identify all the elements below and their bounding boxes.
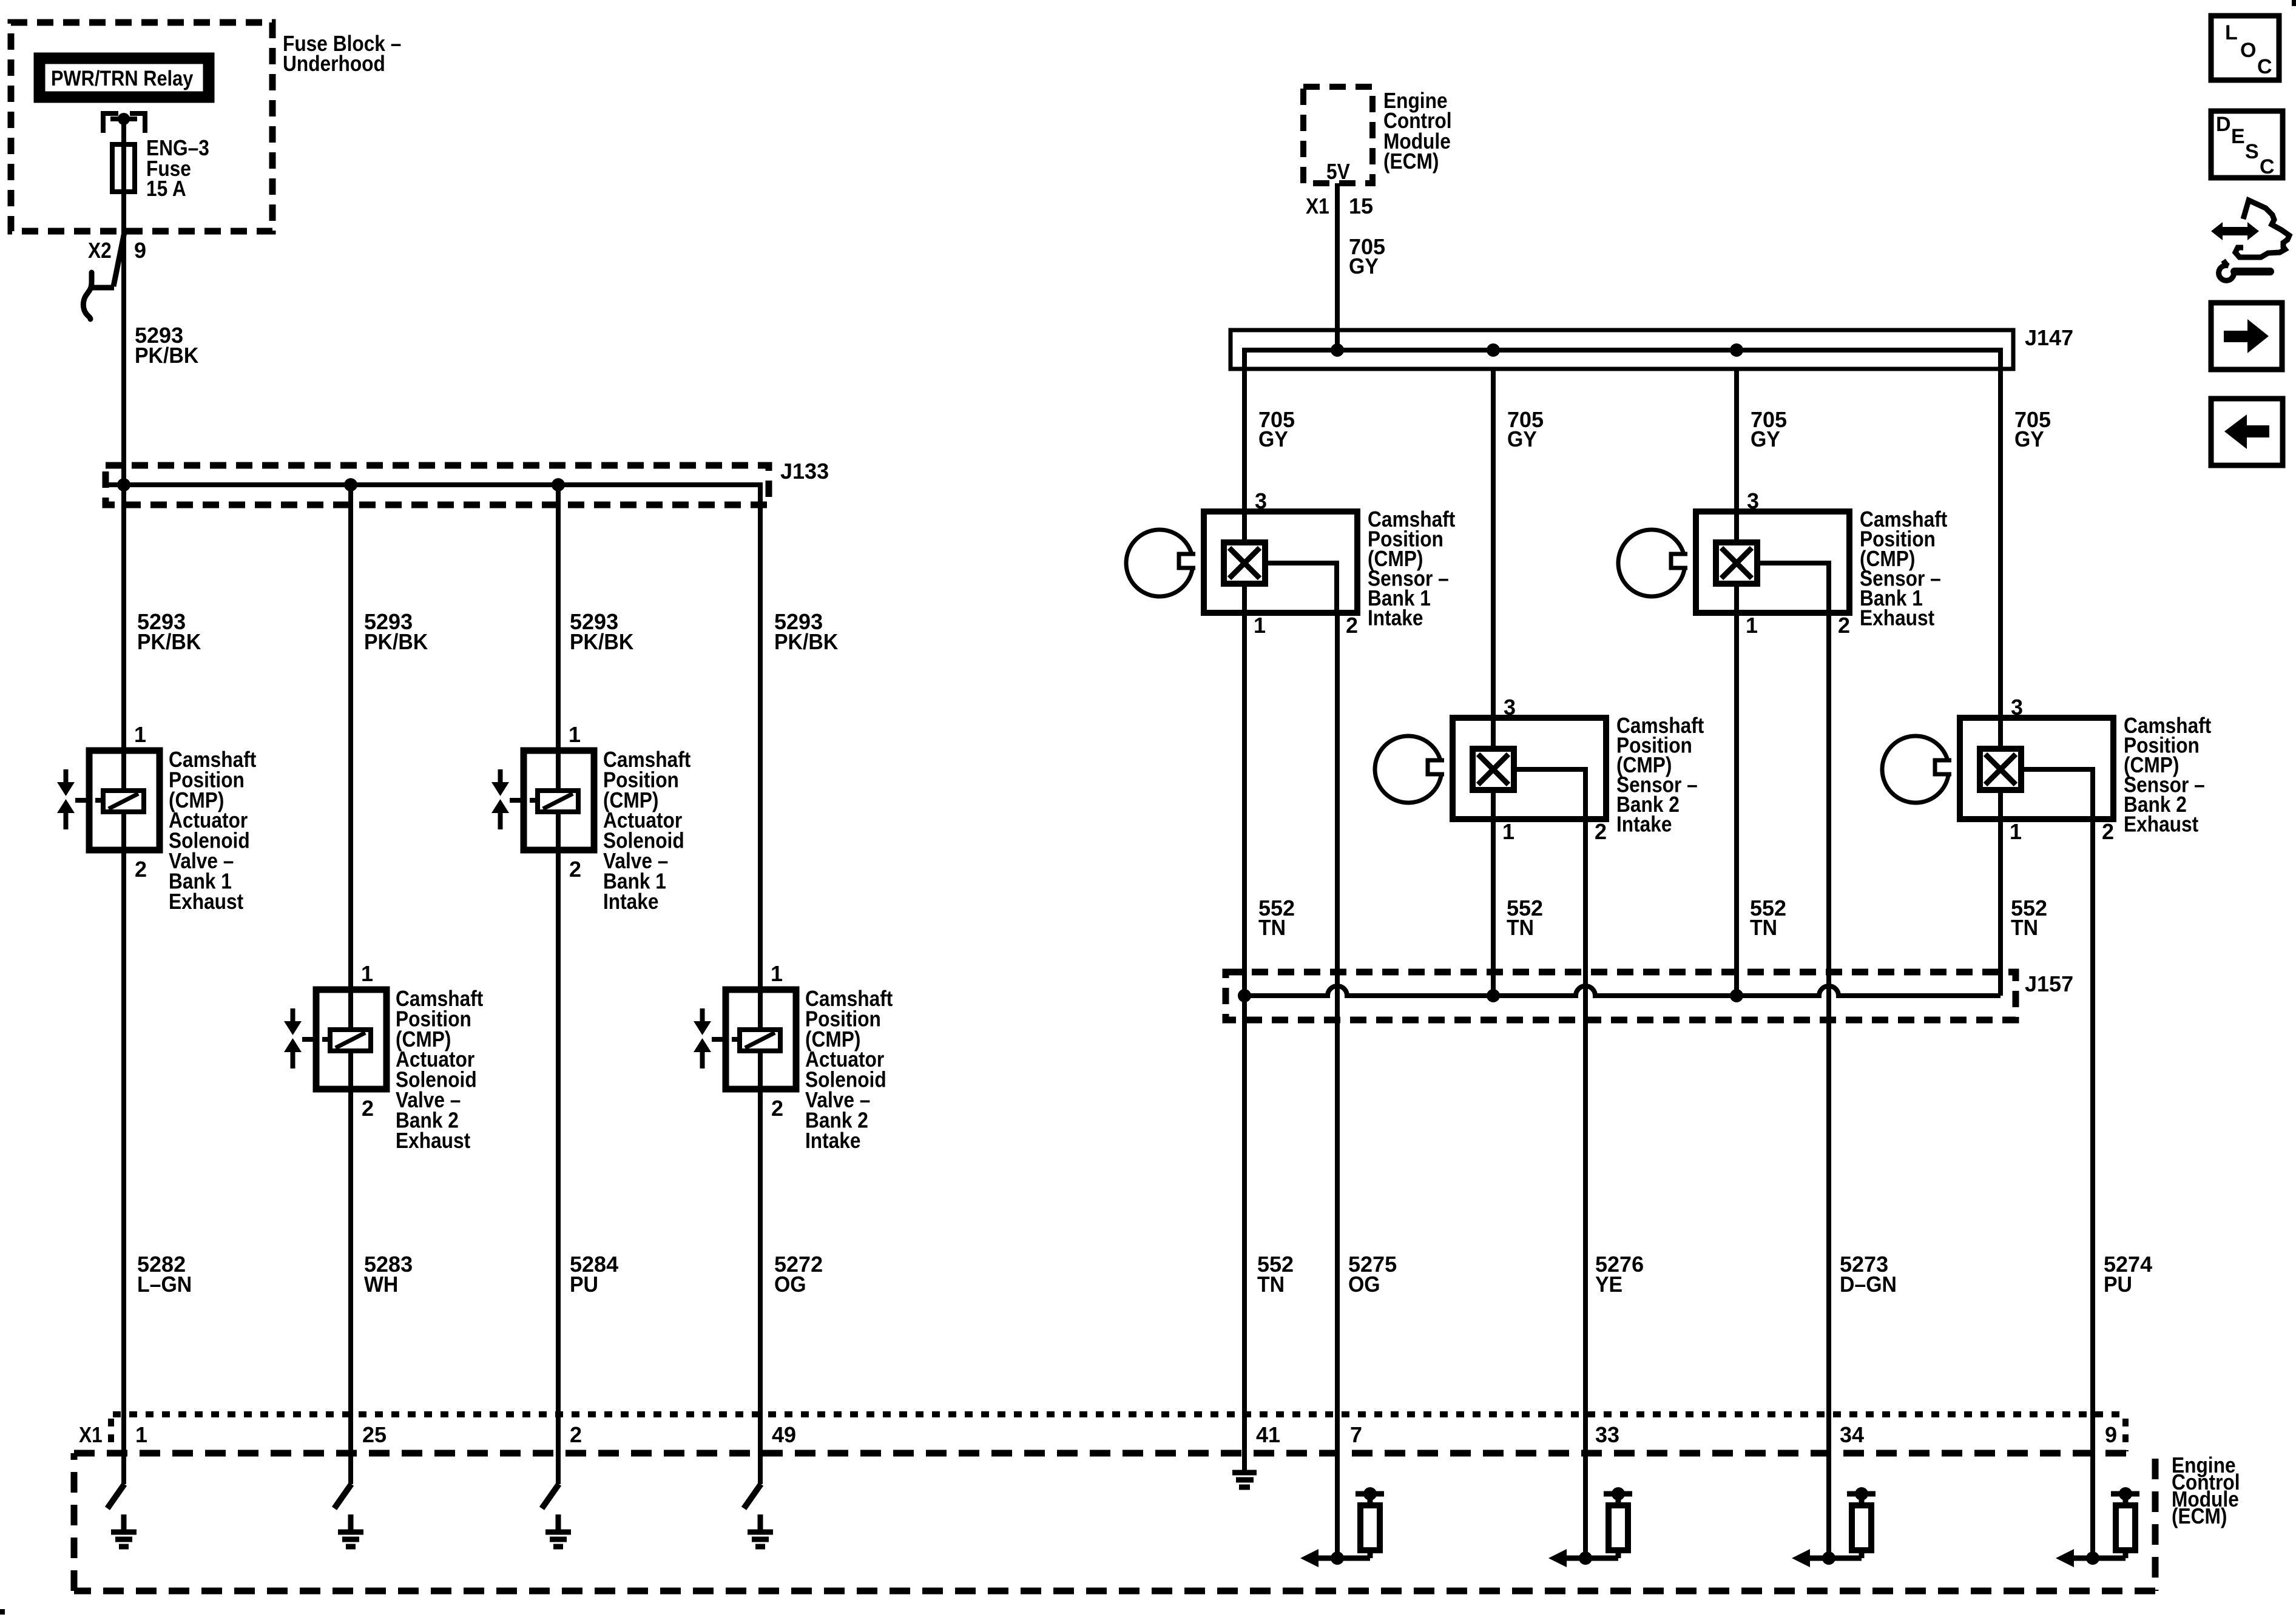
connector row separator right (2122, 1419, 2129, 1451)
J157 bus wire with hops (1244, 986, 2001, 996)
fuse block underhood dashed box (11, 22, 272, 231)
svg-text:Intake: Intake (1368, 606, 1423, 630)
icon box DESC (2211, 111, 2283, 178)
svg-text:PK/BK: PK/BK (774, 630, 838, 654)
svg-text:2: 2 (1346, 613, 1358, 638)
ECM pin 41 label (1256, 1422, 1280, 1447)
ECM pin 49 label (772, 1422, 796, 1447)
wire label 5272 OG (774, 1252, 823, 1297)
ECM bottom text label (2172, 1453, 2240, 1528)
svg-text:3: 3 (1747, 488, 1759, 513)
wire 705 GY drop 1 (1242, 369, 1247, 511)
fuse block label (283, 32, 401, 76)
svg-text:O: O (2240, 39, 2256, 62)
svg-text:1: 1 (771, 961, 783, 986)
solenoid 3 text label (603, 748, 690, 914)
terminal lead at ECM pin (left 4) (744, 1484, 761, 1508)
solenoid 4 text label (805, 987, 893, 1153)
page corner mark top right (2292, 0, 2296, 6)
junction dot J147 5V feed (1331, 343, 1344, 357)
svg-text:D: D (2216, 113, 2231, 136)
CMP sensor Bank 2 Exhaust (component 4) (1882, 718, 2113, 819)
wire 552 TN sensor1 pin1 to J157 (1242, 613, 1247, 996)
sensor 2 pin 2 label (1595, 819, 1607, 844)
wire label 552 TN (above J157, 1) (1258, 896, 1295, 940)
svg-text:TN: TN (1258, 916, 1286, 940)
sensor 2 pin 1 label (1502, 819, 1514, 844)
connector terminal lead at X2 (83, 229, 125, 319)
CMP actuator solenoid valve Bank 1 Exhaust (component 1) (57, 751, 160, 850)
svg-text:2: 2 (2102, 819, 2114, 844)
svg-text:PK/BK: PK/BK (137, 630, 201, 654)
svg-text:GY: GY (1507, 427, 1537, 451)
wire 5276 YE sensor2 pin2 down (1583, 819, 1588, 1558)
svg-text:TN: TN (1750, 916, 1777, 940)
svg-text:GY: GY (1751, 427, 1780, 451)
icon box arrow left (2211, 399, 2283, 465)
ground symbol at ECM pin 41 (1232, 1473, 1257, 1487)
svg-text:41: 41 (1256, 1422, 1280, 1447)
svg-text:(ECM): (ECM) (2172, 1504, 2227, 1528)
wire label 5273 D-GN (1840, 1252, 1897, 1297)
sensor 3 text label (1860, 507, 1947, 630)
svg-text:2: 2 (1838, 613, 1850, 638)
svg-text:15 A: 15 A (146, 177, 186, 201)
sensor 4 pin 3 label (2011, 695, 2023, 720)
svg-text:TN: TN (1507, 916, 1534, 940)
ECM top dashed box (1303, 87, 1373, 183)
junction dot J157 mid2 (1730, 989, 1743, 1002)
svg-text:C: C (2260, 155, 2275, 178)
page corner mark bottom left (0, 1609, 5, 1615)
junction dot J133 at wire 2 (344, 478, 357, 491)
svg-text:PK/BK: PK/BK (364, 630, 428, 654)
svg-text:1: 1 (135, 1422, 147, 1447)
ECM pin 9 label (2105, 1422, 2117, 1447)
solenoid 4 pin 1 label (771, 961, 783, 986)
wire label 705 GY (top) (1349, 234, 1385, 279)
ECM pin 34 label (1840, 1422, 1864, 1447)
wire label 5275 OG (1348, 1252, 1397, 1297)
svg-text:Intake: Intake (603, 890, 659, 914)
sensor 2 pin 2 wire inside box (1514, 769, 1585, 819)
solenoid 1 pin 2 label (135, 857, 147, 882)
svg-text:25: 25 (362, 1422, 387, 1447)
svg-text:Exhaust: Exhaust (169, 890, 243, 914)
svg-text:49: 49 (772, 1422, 796, 1447)
terminal lead at ECM pin (left 3) (542, 1484, 559, 1508)
svg-text:PWR/TRN Relay: PWR/TRN Relay (51, 66, 194, 90)
svg-text:J157: J157 (2025, 971, 2073, 996)
svg-text:2: 2 (135, 857, 147, 882)
wire 5293 PK/BK drop 4 (758, 505, 763, 990)
svg-text:TN: TN (2011, 916, 2038, 940)
wire label 5283 WH (364, 1252, 413, 1297)
sensor 4 pin 1 label (2010, 819, 2022, 844)
svg-text:L–GN: L–GN (137, 1272, 192, 1297)
wire 552 TN sensor2 pin1 to J157 (1491, 819, 1496, 996)
svg-text:GY: GY (1349, 254, 1379, 279)
svg-text:Exhaust: Exhaust (2124, 812, 2198, 837)
solenoid 3 pin 1 label (569, 722, 581, 747)
ground symbol (left 3) (545, 1514, 571, 1547)
svg-text:34: 34 (1840, 1422, 1864, 1447)
svg-text:1: 1 (1254, 613, 1266, 638)
wire label 552 TN (above J157, 2) (1507, 896, 1543, 940)
svg-text:2: 2 (569, 857, 581, 882)
svg-text:33: 33 (1595, 1422, 1619, 1447)
svg-text:3: 3 (1504, 695, 1516, 720)
fuse ENG-3 15A (112, 144, 135, 192)
CMP sensor Bank 2 Intake (component 2) (1375, 718, 1606, 819)
relay pin terminal (101, 113, 147, 133)
ground symbol (left 2) (338, 1514, 363, 1547)
wire 5274 PU sensor4 pin2 down (2090, 819, 2095, 1558)
internal resistor network at pin (right 1) (1300, 1487, 1384, 1567)
ECM pin 7 label (1350, 1422, 1362, 1447)
svg-text:D–GN: D–GN (1840, 1272, 1897, 1297)
solenoid 3 pin 2 label (569, 857, 581, 882)
svg-text:WH: WH (364, 1272, 398, 1297)
junction dot J157 left (1238, 989, 1251, 1002)
ECM pin 33 label (1595, 1422, 1619, 1447)
wire 705 GY from ECM 5V (1335, 183, 1340, 350)
svg-text:OG: OG (774, 1272, 806, 1297)
svg-text:PU: PU (2104, 1272, 2132, 1297)
wire 5272 OG (758, 1089, 763, 1484)
splice pack J133 dashed box (106, 465, 769, 505)
svg-text:X1: X1 (1306, 194, 1329, 218)
CMP actuator solenoid valve Bank 2 Exhaust (component 2) (284, 990, 387, 1089)
ECM connector row dotted line (113, 1411, 2124, 1417)
wire label 705 GY (drop 2) (1507, 407, 1544, 451)
svg-text:X2: X2 (88, 238, 112, 263)
svg-text:GY: GY (2014, 427, 2044, 451)
connector X1 pin 15 labels (1306, 194, 1373, 218)
svg-text:OG: OG (1348, 1272, 1380, 1297)
wire label 5276 YE (1595, 1252, 1644, 1297)
svg-text:J133: J133 (780, 459, 829, 484)
svg-text:GY: GY (1258, 427, 1288, 451)
svg-text:C: C (2257, 55, 2272, 78)
svg-text:E: E (2231, 125, 2245, 148)
wire label 552 TN (above J157, 4) (2011, 896, 2047, 940)
svg-text:3: 3 (2011, 695, 2023, 720)
wire 552 TN sensor4 pin1 to J157 (1998, 819, 2003, 996)
CMP sensor Bank 1 Exhaust (component 3) (1618, 511, 1849, 613)
sensor 4 pin 2 label (2102, 819, 2114, 844)
wire 5283 WH (348, 1089, 353, 1484)
CMP actuator solenoid valve Bank 1 Intake (component 3) (491, 751, 594, 850)
svg-text:(ECM): (ECM) (1383, 149, 1439, 174)
svg-text:PK/BK: PK/BK (135, 343, 198, 368)
sensor 1 text label (1368, 507, 1455, 630)
wire 5293 PK/BK drop 2 (348, 485, 353, 990)
sensor 2 pin 3 label (1504, 695, 1516, 720)
solenoid 1 pin 1 label (134, 722, 146, 747)
svg-text:1: 1 (569, 722, 581, 747)
ECM pin 2 label (570, 1422, 582, 1447)
fuse label (146, 136, 209, 201)
label J157 (2025, 971, 2073, 996)
svg-text:PK/BK: PK/BK (570, 630, 633, 654)
sensor 3 pin 1 label (1746, 613, 1758, 638)
sensor 4 text label (2124, 714, 2211, 837)
wire 5284 PU (556, 850, 561, 1484)
wire label 5274 PU (2104, 1252, 2152, 1297)
solenoid 4 pin 2 label (771, 1096, 783, 1121)
svg-text:2: 2 (771, 1096, 783, 1121)
svg-text:L: L (2225, 21, 2238, 44)
connector X2 pin 9 labels (88, 238, 146, 263)
sensor 1 pin 3 label (1255, 488, 1267, 513)
wire 5293 PK/BK drop 1 (121, 485, 126, 751)
CMP sensor Bank 1 Intake (component 1) (1126, 511, 1357, 613)
sensor 1 pin 1 label (1254, 613, 1266, 638)
sensor 2 text label (1616, 714, 1704, 837)
svg-text:7: 7 (1350, 1422, 1362, 1447)
wire 705 GY drop 2 (1491, 369, 1496, 716)
J147 bus wire (1244, 350, 2001, 369)
svg-text:9: 9 (2105, 1422, 2117, 1447)
svg-text:3: 3 (1255, 488, 1267, 513)
label 5V (1326, 160, 1350, 184)
junction dot J133 at wire 1 (117, 478, 130, 491)
internal resistor network at pin (right 2) (1548, 1487, 1632, 1567)
wire label 5284 PU (570, 1252, 618, 1297)
svg-text:Exhaust: Exhaust (396, 1129, 470, 1153)
internal resistor network at pin (right 3) (1792, 1487, 1876, 1567)
splice pack J157 dashed box (1226, 972, 2016, 1020)
wire label 705 GY (drop 1) (1258, 407, 1295, 451)
wire 705 GY drop 3 (1734, 369, 1739, 511)
wire label 705 GY (drop 4) (2014, 407, 2051, 451)
sensor 4 pin 2 wire inside box (2021, 769, 2093, 819)
solenoid 2 text label (396, 987, 483, 1153)
svg-text:Underhood: Underhood (283, 52, 385, 76)
ground symbol (left 4) (748, 1514, 773, 1547)
relay PWR/TRN (39, 58, 209, 97)
ECM bottom dashed box (74, 1450, 2137, 1457)
svg-text:Exhaust: Exhaust (1860, 606, 1934, 630)
wire label 5293 PK/BK (top) (135, 323, 198, 368)
wire label 552 TN (bottom) (1257, 1252, 1294, 1297)
ECM pin 25 label (362, 1422, 387, 1447)
junction dot J133 at wire 3 (552, 478, 565, 491)
svg-text:2: 2 (1595, 819, 1607, 844)
ground symbol (left 1) (111, 1514, 137, 1547)
svg-text:1: 1 (1502, 819, 1514, 844)
svg-text:15: 15 (1349, 194, 1373, 218)
wire 552 TN J157 to ECM pin 41 (1242, 996, 1247, 1471)
icon box arrow right (2211, 303, 2282, 370)
CMP actuator solenoid valve Bank 2 Intake (component 4) (694, 990, 796, 1089)
icon vehicle with arrow and wrench (2211, 200, 2289, 280)
terminal lead at ECM pin (left 2) (334, 1484, 351, 1508)
svg-text:9: 9 (134, 238, 146, 263)
solenoid 2 pin 1 label (361, 961, 373, 986)
wire 5275 OG sensor1 pin2 down (1335, 613, 1340, 1558)
wire label 705 GY (drop 3) (1751, 407, 1787, 451)
svg-text:1: 1 (2010, 819, 2022, 844)
wire label 5293 PK/BK (branch 2) (364, 609, 428, 654)
sensor 1 pin 2 wire inside box (1265, 563, 1337, 613)
sensor 3 pin 3 label (1747, 488, 1759, 513)
sensor 3 pin 2 wire inside box (1757, 563, 1829, 613)
wire from relay through fuse down to J133 (121, 119, 126, 485)
svg-text:TN: TN (1257, 1272, 1285, 1297)
wire label 5293 PK/BK (branch 3) (570, 609, 633, 654)
svg-text:YE: YE (1595, 1272, 1622, 1297)
splice pack J147 outer box (1231, 330, 2013, 369)
ECM pin 1 label (135, 1422, 147, 1447)
sensor 1 pin 2 label (1346, 613, 1358, 638)
junction dot J147 drop 3 (1730, 343, 1743, 357)
svg-text:2: 2 (362, 1096, 374, 1121)
wire 5282 L-GN (121, 850, 126, 1484)
solenoid 1 text label (169, 748, 256, 914)
wire label 5293 PK/BK (branch 1) (137, 609, 201, 654)
svg-text:5V: 5V (1326, 160, 1350, 184)
svg-text:1: 1 (134, 722, 146, 747)
junction dot J147 drop 2 (1487, 343, 1500, 357)
label J133 (780, 459, 829, 484)
wire label 552 TN (above J157, 3) (1750, 896, 1786, 940)
wire label 5293 PK/BK (branch 4) (774, 609, 838, 654)
ECM connector X1 label (79, 1423, 103, 1447)
ECM top text label (1383, 89, 1452, 174)
svg-text:S: S (2245, 140, 2259, 163)
wire 552 TN sensor3 pin1 to J157 (1734, 613, 1739, 996)
internal resistor network at pin (right 4) (2056, 1487, 2139, 1567)
solenoid 2 pin 2 label (362, 1096, 374, 1121)
svg-text:PU: PU (570, 1272, 598, 1297)
label J147 (2025, 325, 2073, 350)
svg-text:1: 1 (361, 961, 373, 986)
svg-text:X1: X1 (79, 1423, 103, 1447)
wire label 5282 L-GN (137, 1252, 192, 1297)
svg-text:Intake: Intake (805, 1129, 861, 1153)
terminal lead at ECM pin (left 1) (107, 1484, 124, 1508)
icon box LOC (2211, 16, 2279, 80)
svg-text:Intake: Intake (1616, 812, 1672, 837)
svg-text:2: 2 (570, 1422, 582, 1447)
wire 705 GY drop 4 (1998, 369, 2003, 716)
connector row separator left (108, 1419, 114, 1453)
sensor 3 pin 2 label (1838, 613, 1850, 638)
wire 5293 PK/BK drop 3 (556, 485, 561, 751)
junction dot J157 mid1 (1487, 989, 1500, 1002)
wire 5273 D-GN sensor3 pin2 down (1826, 613, 1831, 1558)
svg-text:J147: J147 (2025, 325, 2073, 350)
svg-text:1: 1 (1746, 613, 1758, 638)
J133 bus wire (104, 485, 760, 505)
